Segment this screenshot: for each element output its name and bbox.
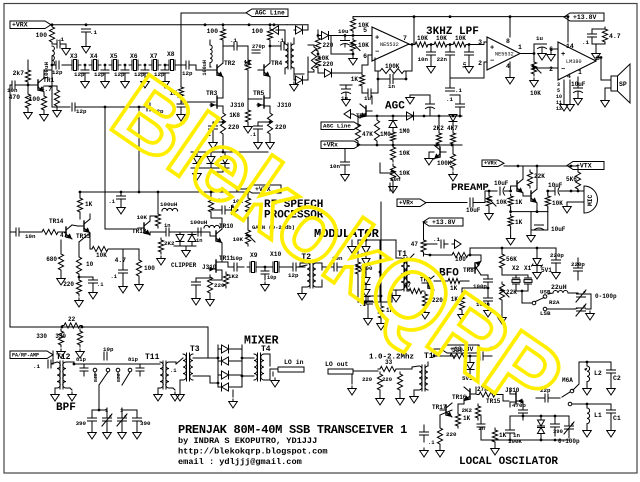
svg-text:10p: 10p <box>232 255 243 262</box>
ground <box>293 82 295 85</box>
svg-text:−: − <box>375 48 379 56</box>
wire U1 output <box>409 44 415 46</box>
potentiometer 10K input <box>486 194 491 208</box>
wire T4 out <box>264 353 270 355</box>
svg-text:+13.8V: +13.8V <box>573 14 597 21</box>
svg-text:.1: .1 <box>109 199 115 205</box>
resistor 56K <box>499 252 504 270</box>
capacitor 12p <box>185 61 187 69</box>
ground mod <box>351 244 353 247</box>
resistor 1K2 <box>223 272 228 288</box>
svg-text:PRENJAK 80M-40M SSB TRANSCEIVE: PRENJAK 80M-40M SSB TRANSCEIVER 1 <box>178 423 407 437</box>
power tag +13.8V <box>564 13 604 21</box>
svg-text:100uH: 100uH <box>160 201 178 208</box>
svg-text:2: 2 <box>478 60 482 67</box>
transistor TR12 <box>143 223 145 233</box>
wire preamp input <box>426 202 467 204</box>
capacitor 10p shunt <box>261 270 269 272</box>
wire detector out <box>307 25 309 30</box>
svg-text:10K: 10K <box>96 252 107 259</box>
wire <box>269 42 271 63</box>
ground <box>180 112 182 115</box>
capacitor .1 bpf in <box>47 360 49 368</box>
wire U2 out <box>520 53 534 55</box>
svg-text:M6A: M6A <box>562 377 573 384</box>
transistor TR16 <box>469 389 471 399</box>
svg-text:NE5532: NE5532 <box>380 42 399 48</box>
resistor 1K <box>178 85 183 100</box>
resistor 10K feedback <box>90 246 110 251</box>
crystal X10 <box>272 262 274 272</box>
transistor TR4 <box>263 65 265 75</box>
svg-text:2K2: 2K2 <box>462 407 473 414</box>
fet TR3 J310 <box>216 96 218 108</box>
wire <box>79 192 81 196</box>
wire <box>505 190 511 192</box>
ground limiter <box>196 171 198 174</box>
net tag +VRx mid <box>397 199 426 207</box>
svg-text:X8: X8 <box>167 51 175 58</box>
svg-text:10K: 10K <box>399 170 410 177</box>
resistor 2K2 <box>158 238 163 254</box>
ground <box>566 204 568 207</box>
wire to TR12 base <box>105 107 136 229</box>
svg-text:+: + <box>490 44 494 52</box>
resistor 220 lo b <box>397 372 402 392</box>
diode varactor lo <box>466 363 474 370</box>
wire <box>269 77 271 93</box>
resistor 100 <box>136 258 141 278</box>
ground <box>413 394 415 397</box>
svg-text:PREAMP: PREAMP <box>451 182 489 194</box>
wire darlington <box>72 225 78 226</box>
wire tank top <box>579 361 611 363</box>
potentiometer 22K <box>499 282 504 302</box>
svg-text:.1: .1 <box>455 87 462 94</box>
svg-text:10K: 10K <box>399 150 410 157</box>
svg-text:56K: 56K <box>506 256 517 263</box>
svg-text:1: 1 <box>578 69 582 76</box>
capacitor .1 <box>221 206 223 214</box>
node <box>509 210 512 213</box>
svg-text:81p: 81p <box>76 356 87 363</box>
capacitor 12p shunt 1 <box>84 64 87 67</box>
net tag AGC Line mid <box>321 122 360 130</box>
diode clipper D2 <box>188 235 196 242</box>
fet TR11 J310 <box>215 260 217 272</box>
wire TR1 collector <box>44 70 52 78</box>
ground <box>122 284 124 287</box>
wire <box>590 296 592 308</box>
wire 12p row <box>52 65 70 107</box>
svg-text:10uF: 10uF <box>466 207 481 214</box>
wire mic gnd <box>567 202 584 204</box>
capacitor .1 <box>89 279 98 281</box>
svg-text:8: 8 <box>506 38 510 45</box>
ground <box>536 270 538 273</box>
ground <box>423 448 425 451</box>
svg-text:3: 3 <box>478 39 482 46</box>
wire <box>332 72 363 74</box>
svg-text:J310: J310 <box>277 102 292 109</box>
resistor 10K lpf3 <box>451 42 468 47</box>
svg-text:390: 390 <box>76 420 87 427</box>
inductor L2 <box>587 366 590 382</box>
diode ring D7 <box>222 371 229 379</box>
power tag +VRX <box>10 21 51 29</box>
svg-text:220: 220 <box>275 124 287 131</box>
transistor TR8 <box>474 263 476 273</box>
wire left border vertical <box>9 85 11 327</box>
ground T3 <box>179 392 181 395</box>
svg-text:NE5532: NE5532 <box>495 52 514 58</box>
svg-text:4.7: 4.7 <box>41 86 53 93</box>
potentiometer 10K volume <box>531 60 536 76</box>
op-amp U2 NE5532 <box>487 37 520 70</box>
crystal X6 <box>131 60 133 70</box>
resistor 220 lo <box>437 426 442 446</box>
svg-text:220: 220 <box>362 376 372 383</box>
wire vtx feed <box>237 189 246 192</box>
ground <box>274 378 276 381</box>
svg-text:X5: X5 <box>110 53 118 60</box>
wire op-amp input <box>329 35 372 37</box>
capacitor 10n mod <box>333 263 335 271</box>
capacitor 10p bpf <box>103 352 105 360</box>
diode ring D8 <box>222 383 229 391</box>
ground <box>550 52 552 55</box>
diode clipper D1 <box>176 235 184 242</box>
capacitor 12p shunt 5 <box>164 64 167 67</box>
svg-text:1u: 1u <box>536 35 543 42</box>
inductor 100uH <box>52 46 54 65</box>
ground <box>144 79 146 82</box>
wire <box>398 368 412 370</box>
ground det <box>409 95 411 98</box>
ground <box>452 240 461 249</box>
diode limiter D1 <box>193 157 201 164</box>
svg-text:100uH: 100uH <box>190 219 208 226</box>
svg-text:10: 10 <box>86 261 94 268</box>
svg-text:5K6: 5K6 <box>566 176 577 183</box>
capacitor C1 <box>607 409 616 411</box>
diode limiter D3 <box>221 157 229 164</box>
wire feedback to top rail <box>413 17 415 45</box>
ground <box>160 256 162 259</box>
svg-text:TR17: TR17 <box>432 404 447 411</box>
wire <box>259 266 270 268</box>
capacitor 390 <box>551 423 560 425</box>
svg-text:+VR×: +VR× <box>399 200 414 207</box>
svg-text:10K: 10K <box>358 42 369 49</box>
resistor 100 <box>49 25 54 44</box>
svg-text:T11: T11 <box>145 353 160 362</box>
transistor TR17 <box>445 405 447 415</box>
svg-text:100: 100 <box>144 265 155 272</box>
resistor 100 TR4 <box>267 27 272 42</box>
resistor 1K carrier <box>378 304 383 320</box>
resistor 10K agc <box>390 145 395 162</box>
svg-text:0-100p: 0-100p <box>558 438 580 445</box>
ground <box>452 172 454 175</box>
svg-text:10n: 10n <box>418 56 429 63</box>
svg-text:1: 1 <box>518 44 522 51</box>
svg-text:220: 220 <box>63 281 74 288</box>
svg-text:L2: L2 <box>594 370 602 377</box>
switch bpf a <box>93 368 97 372</box>
wire lo varactor top <box>510 415 569 417</box>
svg-text:1K: 1K <box>85 201 93 208</box>
capacitor 220p bfo <box>552 259 561 261</box>
ground <box>430 64 432 67</box>
capacitor 10uF base <box>499 187 501 195</box>
svg-text:5V1: 5V1 <box>541 267 552 274</box>
capacitor 10uF bypass <box>535 224 544 226</box>
transformer T2 <box>307 263 310 287</box>
wire <box>361 88 363 92</box>
svg-text:.1: .1 <box>582 39 589 46</box>
wire clipper <box>169 231 200 233</box>
wire mixer connections <box>193 357 218 359</box>
transistor TR10 <box>215 231 217 241</box>
ground <box>121 430 123 433</box>
power tag +13.8V LO <box>441 345 479 353</box>
svg-text:.1: .1 <box>230 37 237 44</box>
ground <box>610 428 612 431</box>
wire 22n to agc <box>450 94 460 96</box>
trimmer capacitor bpf2 <box>118 417 127 419</box>
capacitor 1n 2 <box>197 228 199 236</box>
ground <box>352 56 354 59</box>
net tag PA/RF-AMP <box>10 351 53 359</box>
ground <box>344 172 346 175</box>
op-amp U3 LM380 <box>558 42 596 80</box>
resistor 1K <box>77 196 82 214</box>
transformer T5 IF <box>285 44 288 68</box>
potentiometer 10K gain <box>245 228 250 246</box>
svg-text:2K2: 2K2 <box>164 240 175 247</box>
svg-text:1M0: 1M0 <box>399 128 410 135</box>
ground <box>185 248 187 251</box>
diode limiter D2 <box>207 157 215 164</box>
resistor 4K7 <box>450 131 455 146</box>
svg-text:100: 100 <box>207 28 219 35</box>
ground <box>494 446 496 449</box>
resistor 10K lpf2 <box>432 42 449 47</box>
svg-text:270p: 270p <box>252 44 265 50</box>
wire <box>410 254 414 258</box>
ground <box>257 140 259 143</box>
ground <box>138 282 140 285</box>
resistor 47 bfo2 <box>407 288 424 293</box>
wire agc pot to preamp <box>380 163 393 173</box>
wire collector 2 <box>536 166 538 189</box>
svg-text:T4: T4 <box>261 345 271 354</box>
svg-text:.1: .1 <box>446 96 453 103</box>
svg-text:AGC Line: AGC Line <box>323 123 351 130</box>
svg-text:12p: 12p <box>76 108 87 115</box>
capacitor 270p <box>252 49 260 51</box>
resistor 220 TR11 <box>207 275 212 295</box>
wire emitter 2 <box>536 203 538 212</box>
diode ring D3 <box>362 278 370 285</box>
wire <box>300 262 307 264</box>
wire det top <box>410 95 430 100</box>
capacitor det <box>426 103 435 105</box>
ground <box>510 236 512 239</box>
ground <box>351 386 353 389</box>
ground <box>60 43 66 45</box>
svg-text:BPF: BPF <box>56 402 76 414</box>
fet TR5 J310 <box>263 96 265 108</box>
svg-text:680: 680 <box>46 256 57 263</box>
svg-text:10p: 10p <box>267 275 276 281</box>
resistor 220 bfo <box>422 292 427 308</box>
resistor 1K bfo 2 <box>459 295 464 312</box>
wire <box>66 361 74 363</box>
resistor 10K emitter <box>545 194 550 208</box>
potentiometer 10K agc <box>390 164 395 182</box>
resistor 1K <box>359 73 364 88</box>
svg-text:C1: C1 <box>613 415 621 422</box>
ground <box>488 211 490 214</box>
transformer T1 LO <box>419 366 422 390</box>
capacitor 10uF mic <box>554 187 556 195</box>
svg-text:100K: 100K <box>385 63 400 70</box>
ground <box>120 205 122 208</box>
ground <box>586 428 588 431</box>
ground <box>85 44 87 47</box>
svg-text:.1: .1 <box>170 367 177 374</box>
wire to limiter <box>222 136 224 152</box>
wire <box>44 86 57 88</box>
wire lo tank <box>548 397 560 399</box>
diode D4 <box>325 69 332 77</box>
svg-text:12p: 12p <box>114 71 125 78</box>
svg-text:L1: L1 <box>594 412 602 419</box>
capacitor 1u <box>367 89 369 97</box>
ground <box>78 298 80 301</box>
svg-text:X1: X1 <box>524 265 532 272</box>
svg-text:B40: B40 <box>93 373 99 382</box>
wire <box>427 362 429 366</box>
capacitor .1 bfo <box>440 240 442 248</box>
capacitor .1 interstage <box>233 42 235 50</box>
capacitor 12p out <box>292 263 294 271</box>
svg-text:12p: 12p <box>94 71 105 78</box>
wire t11 out <box>169 361 176 363</box>
ground <box>380 321 382 324</box>
ground <box>56 108 58 111</box>
svg-text:AGC Line: AGC Line <box>255 10 285 17</box>
svg-text:100K: 100K <box>437 160 452 167</box>
resistor 100 TR10 <box>208 196 213 214</box>
crystal X4 <box>91 60 93 70</box>
svg-text:−: − <box>490 58 494 66</box>
svg-text:X4: X4 <box>90 53 98 60</box>
wire lo rail <box>434 348 441 350</box>
speaker SP <box>611 76 618 91</box>
wire U2 power <box>509 17 511 37</box>
capacitor 10n input <box>15 228 17 236</box>
resistor 4.7 zobel <box>602 27 607 44</box>
capacitor .1 carrier <box>368 295 381 297</box>
wire LM380 pin6 <box>551 49 558 52</box>
resistor 330 a <box>58 329 63 347</box>
svg-text:+: + <box>375 35 379 43</box>
resistor 33 <box>378 366 398 371</box>
capacitor 10uF in <box>469 198 471 207</box>
resistor 330 <box>448 353 468 358</box>
wire <box>221 243 223 257</box>
svg-text:.1: .1 <box>57 36 64 43</box>
capacitor .1 lo2 <box>420 431 429 433</box>
transformer T3 <box>183 354 186 380</box>
svg-text:+13.8V: +13.8V <box>432 219 456 226</box>
capacitor 10u <box>341 40 350 42</box>
svg-text:6: 6 <box>363 53 367 60</box>
resistor 10K gain <box>245 196 250 214</box>
wire agc row <box>358 116 360 126</box>
wire <box>149 216 151 221</box>
svg-text:1K: 1K <box>244 60 252 67</box>
capacitor .1 agc in <box>456 103 465 105</box>
svg-text:SP: SP <box>619 81 627 88</box>
wire LM380 power pin14 <box>567 17 569 42</box>
svg-text:10K: 10K <box>455 35 466 42</box>
transformer T4 <box>254 354 257 380</box>
diode detector <box>407 112 414 120</box>
transistor TR14 <box>65 227 67 237</box>
wire <box>222 42 224 63</box>
transistor TR13 <box>83 221 85 231</box>
svg-text:1n: 1n <box>196 238 202 244</box>
crystal X8 <box>168 60 170 70</box>
capacitor 10n vtx <box>389 183 391 191</box>
transformer T12 <box>57 362 60 388</box>
wire U2 pin2 feedback <box>450 62 487 78</box>
switch bpf b <box>116 368 120 372</box>
ground <box>577 96 579 99</box>
ground <box>92 290 94 293</box>
transistor TR6 agc <box>439 147 441 157</box>
resistor 1M0 <box>390 130 395 143</box>
svg-text:+: + <box>561 51 565 59</box>
crystal X9 <box>249 262 251 272</box>
svg-text:81p: 81p <box>128 356 139 363</box>
resistor 470 <box>25 92 30 110</box>
ground <box>195 296 197 299</box>
svg-text:.1: .1 <box>33 363 40 370</box>
trimmer capacitor bpf1 <box>103 417 112 419</box>
svg-text:0-100p: 0-100p <box>595 293 617 300</box>
diode D3 <box>322 32 329 40</box>
svg-text:22K: 22K <box>534 173 545 180</box>
svg-text:LOCAL OSCILATOR: LOCAL OSCILATOR <box>459 456 558 468</box>
diode ring D6 <box>222 357 229 365</box>
ground <box>124 79 126 82</box>
ground <box>555 270 557 273</box>
trimmer capacitor lsb <box>577 307 586 309</box>
diode ring D1 <box>362 247 370 254</box>
resistor 1K b <box>508 214 513 228</box>
capacitor 1n <box>165 228 167 236</box>
wire bfo carrier down <box>380 202 382 304</box>
capacitor .1 lo <box>479 352 481 360</box>
capacitor 10uF output <box>574 87 583 89</box>
wire center tap <box>232 390 234 397</box>
svg-text:390: 390 <box>553 428 563 435</box>
